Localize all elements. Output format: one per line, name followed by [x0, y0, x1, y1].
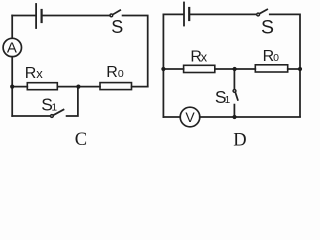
wire C left side bottom: [11, 57, 13, 116]
switch S1 (circuit D): [233, 90, 238, 100]
battery cell circuit D: [184, 3, 189, 26]
wire node M to Rx (circuit D): [215, 68, 235, 70]
node L dot (circuit D): [161, 67, 165, 71]
wire Rx to node L (circuit D): [163, 68, 183, 70]
wire node M down to switch S1 (circuit D): [233, 69, 235, 89]
wire node M to Rx: [57, 86, 78, 88]
wire R0 to node M (circuit D): [235, 68, 256, 70]
switch S (circuit C): [110, 10, 120, 17]
svg-text:V: V: [185, 109, 195, 125]
node R dot (circuit D): [298, 67, 302, 71]
resistor Rx (circuit C): [27, 83, 57, 90]
switch S (circuit D): [257, 9, 268, 16]
wire D right node to R0: [288, 68, 300, 70]
wire S1 to bottom node (circuit D): [233, 105, 235, 117]
wire C left side top (to ammeter): [11, 16, 13, 39]
wire C bottom branch left: [12, 115, 50, 117]
resistor R0 (circuit C): [100, 83, 132, 90]
ammeter A (circuit C): [3, 38, 21, 56]
wire R0 to node M: [79, 86, 101, 88]
node bottom dot (circuit D): [232, 115, 236, 119]
wire C switch to top-right corner and right side down: [123, 16, 148, 87]
resistor R0 (circuit D): [255, 65, 287, 72]
svg-text:D: D: [233, 131, 246, 151]
wire D left side: [162, 14, 164, 117]
voltmeter V (circuit D): [180, 107, 200, 127]
node L dot (circuit C): [10, 85, 14, 89]
battery cell circuit C: [36, 4, 42, 28]
svg-text:S: S: [261, 17, 274, 39]
wire C bottom branch right and up to node M: [67, 87, 78, 116]
wire D voltmeter to bottom-right: [200, 116, 300, 118]
wire Rx to node L: [12, 86, 27, 88]
resistor Rx (circuit D): [184, 65, 215, 72]
svg-text:S: S: [111, 17, 123, 37]
wire D bottom-left to voltmeter: [163, 116, 180, 118]
node M dot (circuit C): [76, 85, 80, 89]
switch S1 (circuit C): [51, 110, 64, 118]
wire D top-left horizontal: [163, 13, 183, 15]
wire C right side to R0: [132, 86, 148, 88]
wire D switch to top-right corner and right side down: [270, 14, 300, 116]
wire C battery to switch: [43, 15, 110, 17]
svg-text:Rx: Rx: [190, 49, 207, 66]
svg-text:C: C: [75, 130, 87, 150]
svg-text:A: A: [7, 40, 17, 57]
wire C top-left horizontal: [12, 15, 35, 17]
node M dot (circuit D): [233, 67, 237, 71]
svg-text:Rx: Rx: [25, 65, 44, 82]
wire D battery to switch: [190, 13, 256, 15]
